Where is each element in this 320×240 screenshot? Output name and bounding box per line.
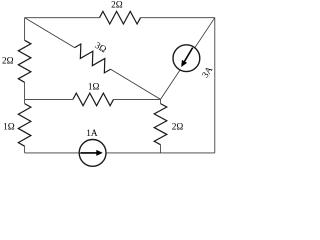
svg-text:1A: 1A: [86, 129, 98, 139]
svg-text:1Ω: 1Ω: [88, 82, 100, 92]
svg-text:1Ω: 1Ω: [3, 123, 15, 133]
svg-text:2Ω: 2Ω: [172, 123, 184, 133]
svg-text:2Ω: 2Ω: [2, 57, 14, 67]
svg-text:3A: 3A: [201, 65, 216, 80]
svg-text:2Ω: 2Ω: [111, 0, 123, 10]
svg-text:3Ω: 3Ω: [93, 41, 108, 56]
